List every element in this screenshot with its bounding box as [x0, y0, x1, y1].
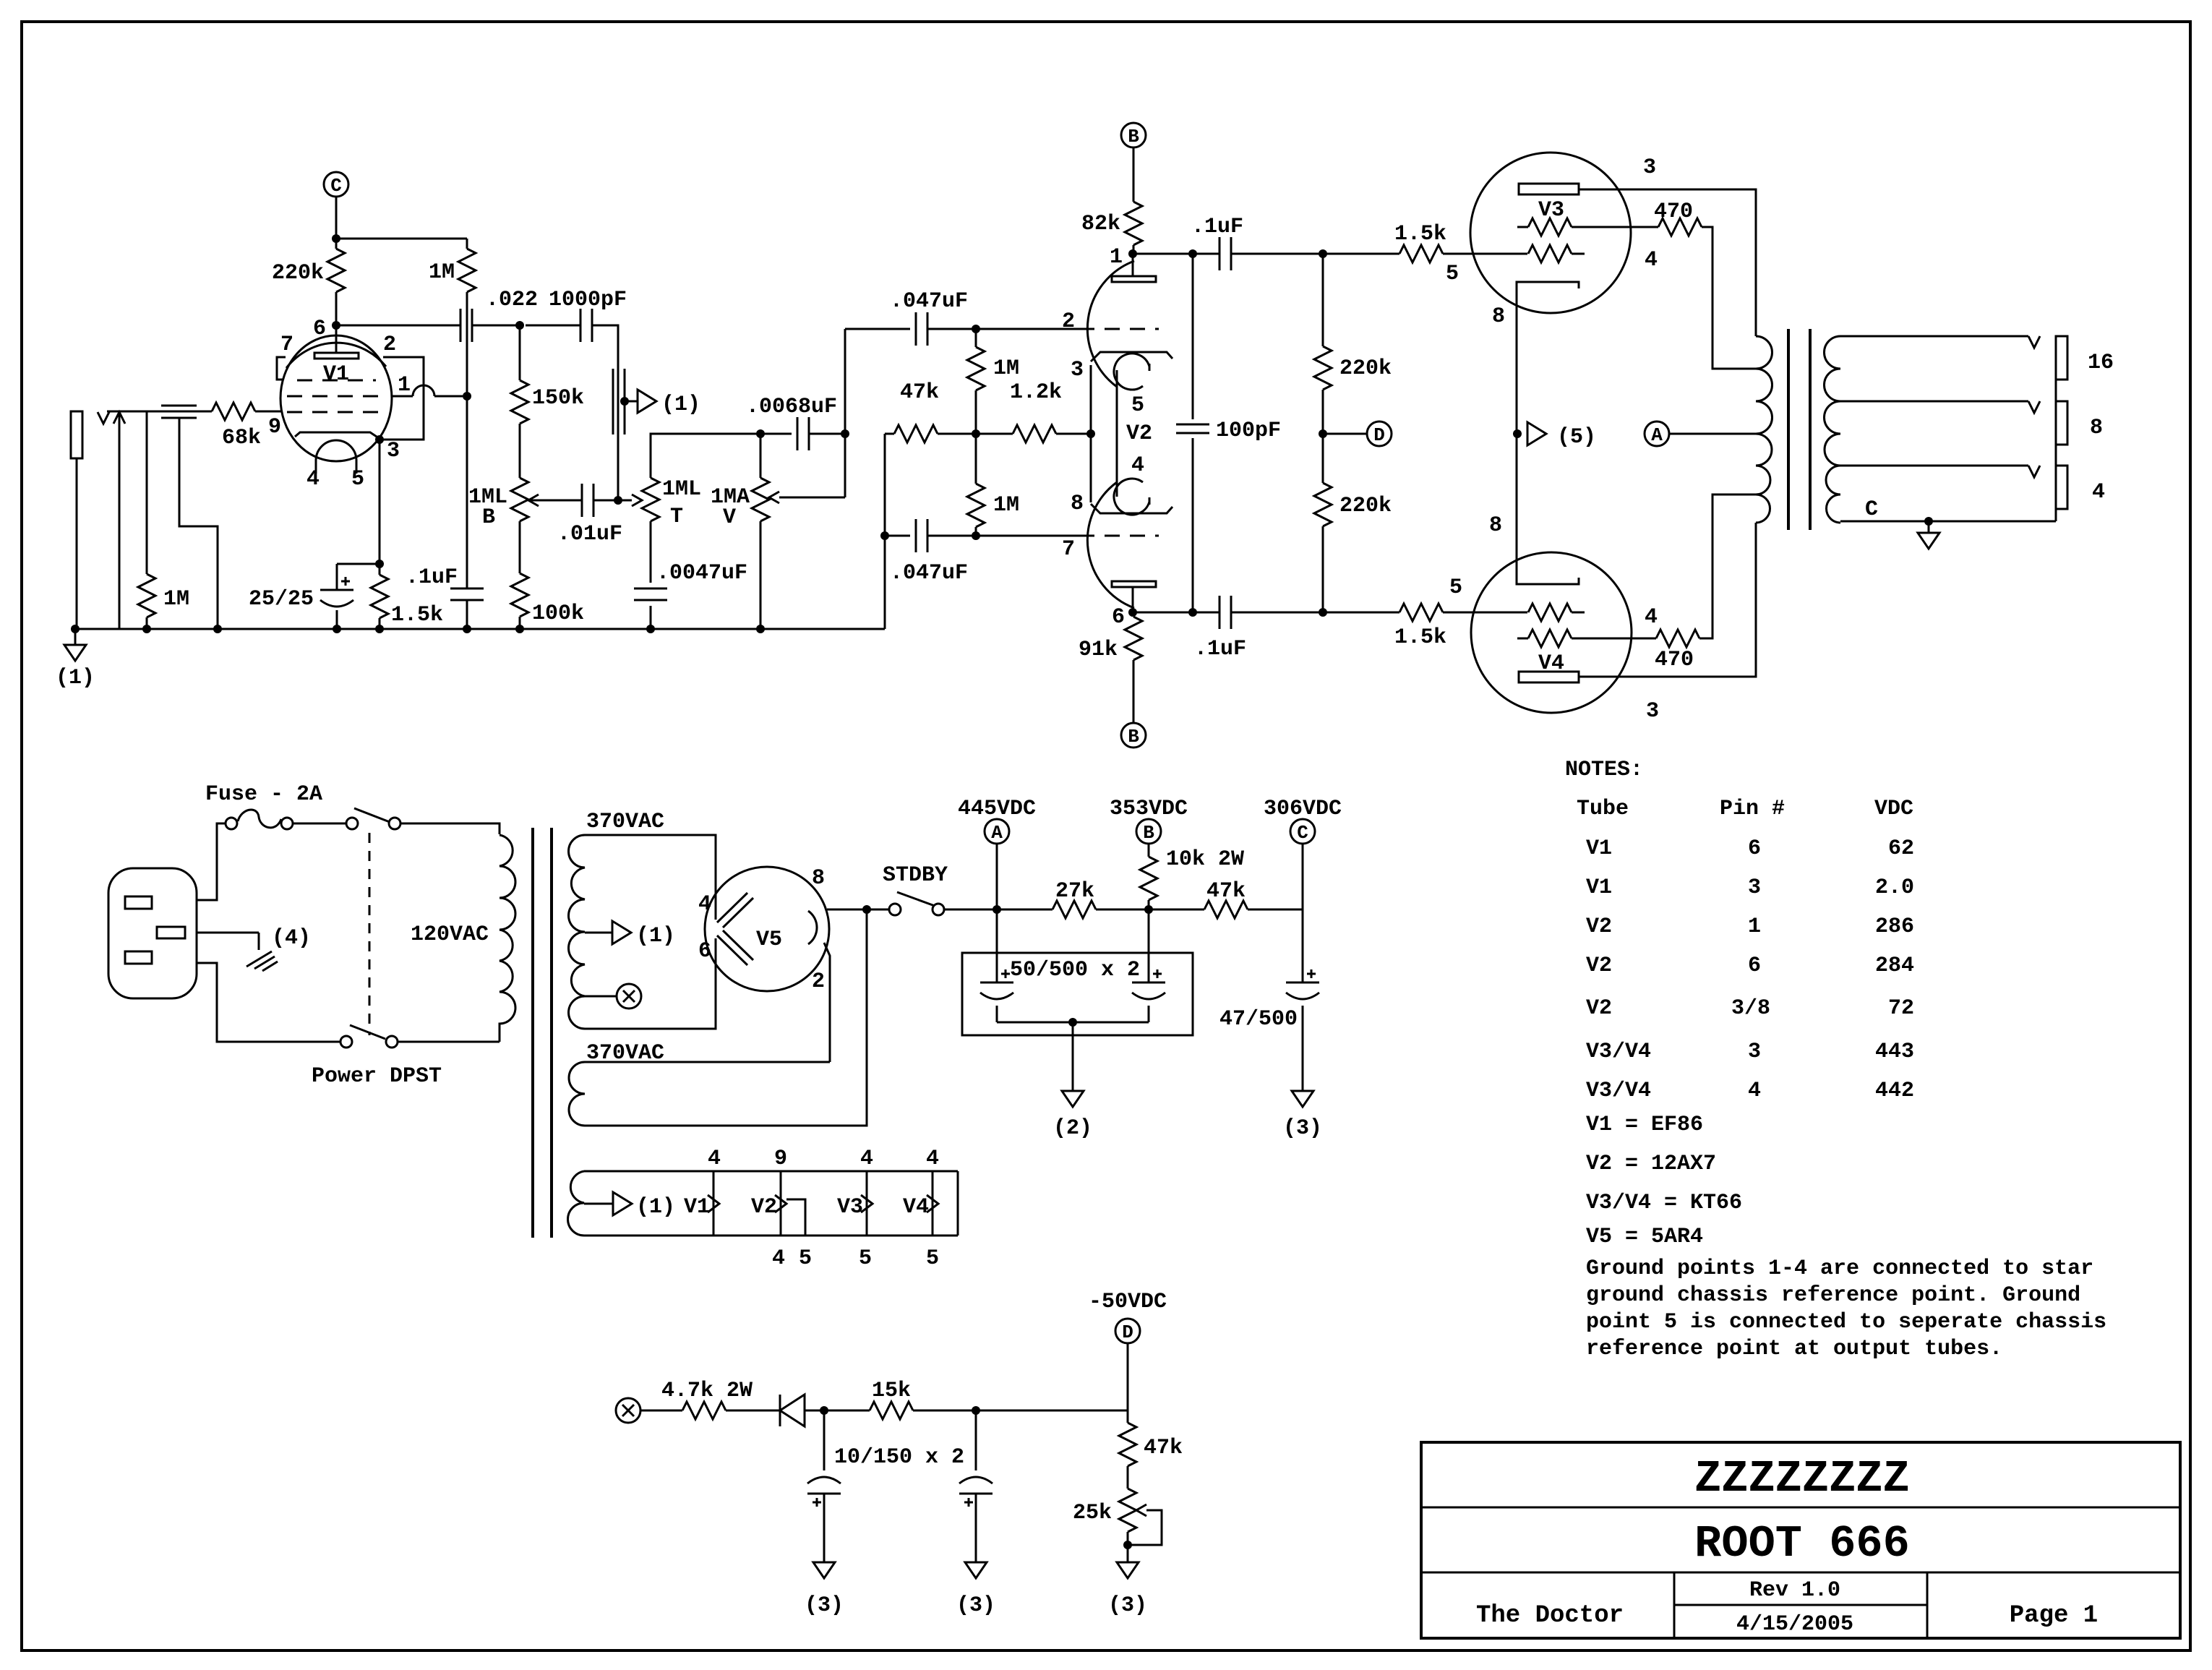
svg-text:V: V: [723, 505, 736, 530]
resistor 1M input: [146, 411, 148, 574]
V2 lower plate bar: [1112, 581, 1156, 587]
wire caps common: [997, 1022, 1149, 1024]
wire: [927, 328, 1079, 330]
wire plug neutral: [197, 963, 340, 1042]
jack shunt contact arrow: [119, 413, 121, 629]
V1 heater arc: [316, 440, 356, 461]
svg-text:220k: 220k: [272, 261, 324, 286]
svg-text:8: 8: [1071, 492, 1084, 516]
ground (3) supply: [1292, 1091, 1313, 1107]
svg-text:V1: V1: [323, 362, 349, 387]
node C: [324, 172, 348, 197]
resistor 15k: [870, 1402, 913, 1419]
V2 grid dashes upper: [1079, 328, 1159, 330]
svg-text:353VDC: 353VDC: [1110, 797, 1188, 821]
pot 25k wiper: [1136, 1504, 1146, 1516]
svg-text:5: 5: [926, 1246, 939, 1271]
svg-text:B: B: [1128, 126, 1139, 147]
svg-text:470: 470: [1654, 200, 1693, 224]
transformer T1 HV winding: [569, 835, 586, 1029]
svg-text:10k 2W: 10k 2W: [1166, 847, 1244, 872]
wire: [1231, 612, 1399, 614]
mains plug: [108, 868, 197, 998]
resistor 220k: [335, 239, 338, 249]
svg-text:D: D: [1373, 424, 1385, 446]
svg-text:V1: V1: [1586, 875, 1612, 900]
svg-text:4: 4: [1645, 605, 1658, 630]
heater bus top: [584, 1170, 958, 1173]
ground (5) output: [1924, 517, 1933, 526]
ground (3) bias a: [813, 1562, 835, 1578]
V4 plate bar: [1519, 672, 1579, 682]
svg-text:2: 2: [812, 969, 825, 994]
V1 grid dashes: [297, 380, 376, 382]
transformer T1 primary 120VAC: [500, 835, 515, 1042]
svg-text:2: 2: [1062, 309, 1075, 334]
svg-text:445VDC: 445VDC: [958, 797, 1036, 821]
V1 plate lead: [335, 325, 338, 353]
wire V5 pin8 out: [827, 909, 888, 911]
capacitor 10/150 a: [823, 1410, 826, 1470]
wire UL tap upper: [1702, 227, 1756, 369]
capacitor 50/500 a: [996, 909, 998, 982]
svg-text:470: 470: [1655, 648, 1694, 672]
capacitor .0068uF: [797, 417, 799, 450]
node cathode: [375, 560, 384, 568]
node X bias: [616, 1398, 640, 1423]
svg-text:2.0: 2.0: [1875, 875, 1914, 900]
svg-text:C: C: [1865, 497, 1878, 522]
heater bus bottom: [584, 1235, 958, 1237]
wire to primary: [401, 823, 500, 834]
V3 plate bar: [1519, 184, 1579, 194]
svg-text:.0068uF: .0068uF: [746, 395, 837, 419]
svg-text:-50VDC: -50VDC: [1089, 1290, 1167, 1314]
resistor 220k upper: [1319, 249, 1327, 258]
svg-text:Pin #: Pin #: [1720, 797, 1785, 821]
svg-text:150k: 150k: [532, 386, 584, 411]
tap 4 ohm: [1840, 465, 2028, 467]
svg-text:1: 1: [398, 373, 411, 398]
svg-text:8: 8: [2090, 416, 2103, 440]
resistor 1M grid: [458, 249, 476, 292]
svg-text:3: 3: [1643, 155, 1656, 180]
V3 plate wire: [1579, 189, 1756, 336]
svg-text:B: B: [482, 505, 495, 530]
svg-text:ground chassis reference point: ground chassis reference point. Ground: [1586, 1283, 2080, 1308]
svg-text:4.7k 2W: 4.7k 2W: [661, 1379, 753, 1403]
svg-text:4: 4: [2092, 480, 2105, 505]
wire HV top to V5 pin4: [585, 835, 716, 920]
svg-text:4: 4: [698, 892, 711, 917]
svg-text:1.5k: 1.5k: [391, 603, 443, 628]
jack bus bar: [2055, 336, 2057, 521]
wire UL tap lower: [1699, 494, 1756, 638]
filter cap box: [962, 953, 1193, 1035]
svg-text:.0047uF: .0047uF: [656, 561, 747, 586]
svg-text:62: 62: [1888, 836, 1914, 861]
node pot bottom: [1127, 1532, 1129, 1545]
resistor 10k 2W: [1140, 857, 1157, 900]
svg-text:.01uF: .01uF: [557, 522, 622, 547]
svg-text:(3): (3): [805, 1593, 844, 1618]
transformer T1 heater winding: [568, 1171, 585, 1236]
V3 control grid: [1528, 245, 1572, 262]
pot 25k bias: [1119, 1489, 1136, 1532]
V4 cathode: [1517, 434, 1579, 584]
V5 cathode arc: [808, 911, 817, 944]
plug prong hot: [125, 896, 152, 909]
svg-text:B: B: [1143, 822, 1154, 844]
shield capacitor: [161, 405, 197, 407]
wire upper coupling: [845, 328, 910, 330]
svg-text:(1): (1): [661, 393, 700, 417]
node cathode join: [1513, 429, 1522, 438]
svg-text:4: 4: [926, 1147, 939, 1171]
wire B+ node: [944, 909, 997, 911]
svg-text:72: 72: [1888, 996, 1914, 1021]
wire from primary: [398, 1041, 500, 1043]
V3 cathode: [1517, 282, 1579, 434]
resistor 1.5k upper: [1399, 245, 1443, 262]
svg-text:3: 3: [1748, 1040, 1761, 1064]
jack tip contact: [98, 412, 109, 424]
svg-text:1ML: 1ML: [662, 477, 701, 502]
svg-text:V3/V4: V3/V4: [1586, 1040, 1651, 1064]
svg-text:306VDC: 306VDC: [1264, 797, 1342, 821]
capacitor .0047uF: [650, 521, 652, 583]
svg-text:6: 6: [1112, 605, 1125, 630]
resistor 470 upper: [1658, 218, 1702, 236]
node D bias: [1115, 1319, 1140, 1343]
wire: [293, 823, 346, 825]
ground (2): [1062, 1091, 1084, 1107]
svg-text:3/8: 3/8: [1731, 996, 1770, 1021]
capacitor 10/150 b: [975, 1410, 977, 1470]
svg-text:1M: 1M: [993, 493, 1019, 518]
svg-text:6: 6: [1748, 836, 1761, 861]
svg-text:50/500 x 2: 50/500 x 2: [1010, 958, 1140, 982]
svg-text:T: T: [670, 505, 683, 529]
secondary common wire: [1840, 521, 2056, 523]
node pin 3: [375, 435, 384, 444]
svg-text:25/25: 25/25: [249, 587, 314, 612]
V4 screen grid: [1517, 638, 1528, 640]
svg-text:47k: 47k: [900, 380, 939, 405]
pot 1ML T treble: [642, 478, 659, 521]
resistor 100k: [519, 521, 521, 573]
resistor 150k: [519, 325, 521, 380]
ground (3) bias b: [965, 1562, 987, 1578]
heater ground (1): [584, 1203, 613, 1205]
svg-text:Ground points 1-4 are connecte: Ground points 1-4 are connected to star: [1586, 1256, 2093, 1281]
resistor 47k supply: [1149, 909, 1204, 911]
node C supply: [1290, 819, 1315, 844]
V4 control grid: [1528, 604, 1572, 621]
node pin 6: [332, 321, 340, 330]
capacitor 1000pF: [580, 309, 582, 342]
V1 top shield arc: [286, 343, 386, 368]
svg-text:6: 6: [313, 317, 326, 341]
svg-text:A: A: [1651, 424, 1663, 446]
wire input to 68k: [107, 411, 212, 413]
svg-text:5: 5: [1446, 262, 1459, 286]
svg-text:8: 8: [1489, 513, 1502, 538]
node D junction: [1319, 429, 1327, 438]
capacitor 50/500 b: [1148, 909, 1150, 982]
svg-text:2: 2: [383, 333, 396, 357]
tube V4 envelope: [1471, 552, 1632, 713]
capacitor .047uF upper: [915, 312, 917, 346]
resistor 1.5k cathode: [379, 564, 381, 575]
node .01uF out: [593, 500, 632, 502]
svg-text:4: 4: [306, 467, 320, 492]
heater bus end: [957, 1171, 959, 1236]
resistor 27k: [997, 909, 1053, 911]
svg-text:284: 284: [1875, 954, 1914, 978]
svg-text:(1): (1): [636, 924, 675, 949]
resistor 470 lower: [1656, 630, 1699, 647]
svg-text:68k: 68k: [222, 426, 261, 450]
tube V3 envelope: [1470, 153, 1631, 313]
ground (1) input: [71, 625, 80, 633]
svg-text:(1): (1): [636, 1195, 675, 1220]
node volume top: [756, 429, 765, 438]
node top rail: [332, 234, 340, 243]
wire lower plate row: [1133, 612, 1219, 614]
capacitor 100pF: [1192, 254, 1194, 419]
svg-text:V5: V5: [756, 928, 782, 952]
svg-text:4: 4: [772, 1246, 785, 1271]
wire 5V top: [585, 1061, 830, 1063]
V2 lower cathode: [1091, 504, 1173, 513]
capacitor 47/500: [1286, 982, 1319, 984]
svg-text:D: D: [1122, 1322, 1133, 1343]
svg-text:9: 9: [774, 1147, 787, 1171]
svg-text:V3: V3: [837, 1195, 863, 1220]
svg-text:The Doctor: The Doctor: [1476, 1602, 1624, 1630]
wire HV bottom to V5 pin6: [585, 938, 716, 1029]
svg-text:7: 7: [280, 333, 293, 357]
pot V wiper: [769, 492, 779, 503]
wire: [1231, 253, 1399, 255]
wire plug safety gnd: [197, 932, 259, 934]
svg-text:Fuse - 2A: Fuse - 2A: [205, 782, 322, 807]
capacitor .022: [460, 309, 462, 342]
node B upper: [1121, 123, 1146, 147]
wire: [927, 535, 1079, 537]
svg-text:16: 16: [2088, 351, 2114, 375]
svg-text:V1: V1: [684, 1195, 710, 1220]
svg-text:1M: 1M: [993, 356, 1019, 381]
svg-text:25k: 25k: [1073, 1501, 1112, 1525]
svg-text:C: C: [330, 175, 342, 197]
node bias b: [972, 1406, 980, 1415]
svg-text:6: 6: [1748, 954, 1761, 978]
svg-text:220k: 220k: [1339, 356, 1392, 381]
resistor 91k: [1132, 612, 1134, 617]
svg-text:10/150 x 2: 10/150 x 2: [834, 1445, 964, 1470]
ground (3) bias c: [1117, 1562, 1139, 1578]
svg-text:.047uF: .047uF: [890, 289, 968, 314]
V2 pin3 pin8 wire: [1090, 365, 1092, 502]
svg-text:A: A: [991, 822, 1003, 844]
svg-text:V2: V2: [1586, 996, 1612, 1021]
svg-text:ROOT 666: ROOT 666: [1694, 1518, 1910, 1570]
wire shield drain: [179, 418, 218, 629]
svg-text:V2: V2: [1586, 954, 1612, 978]
svg-text:1.5k: 1.5k: [1394, 222, 1446, 247]
tap 8 ohm: [1840, 401, 2028, 403]
svg-text:ZZZZZZZZ: ZZZZZZZZ: [1694, 1453, 1910, 1504]
resistor 47k bias: [1127, 1410, 1129, 1423]
svg-text:(3): (3): [1283, 1116, 1322, 1141]
wire upper plate row: [1133, 253, 1219, 255]
svg-text:V3/V4: V3/V4: [1586, 1079, 1651, 1103]
V2 heater arc upper: [1114, 354, 1149, 390]
node A supply: [985, 819, 1009, 844]
svg-text:100pF: 100pF: [1216, 419, 1281, 443]
diode D1: [779, 1395, 781, 1426]
svg-text:STDBY: STDBY: [883, 863, 948, 888]
svg-text:4/15/2005: 4/15/2005: [1736, 1612, 1853, 1637]
svg-text:V2: V2: [1586, 915, 1612, 939]
svg-text:47/500: 47/500: [1219, 1007, 1298, 1032]
svg-text:7: 7: [1062, 537, 1075, 562]
node V2 pin6: [1128, 608, 1137, 617]
V1 pin4 pin5 stubs: [315, 461, 317, 474]
V1 cathode: [295, 432, 381, 440]
HV bias tap X: [585, 995, 617, 998]
svg-text:(5): (5): [1557, 425, 1596, 450]
svg-text:6: 6: [698, 939, 711, 964]
V2 heater arc lower: [1114, 479, 1149, 515]
switch dashed link: [369, 833, 371, 1035]
resistor 4.7k 2W: [682, 1402, 726, 1419]
svg-text:5: 5: [799, 1246, 812, 1271]
svg-text:Tube: Tube: [1577, 797, 1629, 821]
transformer T1 5V winding: [569, 1062, 585, 1126]
V4 plate wire: [1579, 523, 1756, 677]
node B junction: [1144, 905, 1153, 914]
svg-text:442: 442: [1875, 1079, 1914, 1103]
svg-text:NOTES:: NOTES:: [1565, 758, 1643, 782]
svg-text:V4: V4: [903, 1195, 929, 1220]
svg-text:V5 = 5AR4: V5 = 5AR4: [1586, 1225, 1703, 1249]
input jack J1: [71, 411, 82, 458]
svg-text:47k: 47k: [1206, 879, 1246, 904]
tube V2 lower arc: [1087, 482, 1134, 608]
svg-text:1M: 1M: [163, 587, 189, 612]
node V2 pin1: [1128, 249, 1137, 258]
transformer T2 core: [1787, 329, 1790, 530]
switch standby: [889, 904, 901, 915]
svg-text:(3): (3): [956, 1593, 995, 1618]
svg-text:5: 5: [1449, 575, 1462, 600]
shunt capacitor to ground: [612, 369, 614, 434]
ground bus wire: [75, 628, 885, 630]
svg-text:V3/V4 = KT66: V3/V4 = KT66: [1586, 1191, 1742, 1215]
net arrow (5): [1527, 422, 1546, 445]
node divider: [972, 429, 980, 438]
svg-text:point 5 is connected to sepera: point 5 is connected to seperate chassis: [1586, 1310, 2106, 1335]
svg-text:(3): (3): [1108, 1593, 1147, 1618]
HV center tap ground (1): [585, 932, 612, 934]
svg-text:Page 1: Page 1: [2010, 1602, 2098, 1630]
pot 1ML B bass: [511, 478, 528, 521]
svg-text:5: 5: [351, 467, 364, 492]
svg-text:3: 3: [1748, 875, 1761, 900]
pot B wiper: [528, 494, 539, 506]
svg-text:C: C: [1297, 822, 1308, 844]
V3 screen grid: [1517, 226, 1528, 228]
title block frame: [1421, 1442, 2180, 1638]
svg-text:1000pF: 1000pF: [549, 288, 627, 312]
V5 plate pin4: [717, 893, 747, 922]
svg-text:91k: 91k: [1079, 638, 1118, 662]
svg-text:8: 8: [1492, 304, 1505, 329]
svg-text:5: 5: [1131, 393, 1144, 418]
tube V5 envelope: [705, 867, 829, 991]
svg-text:V1: V1: [1586, 836, 1612, 861]
capacitor .01uF: [581, 484, 583, 517]
V2 heater line: [1116, 370, 1118, 497]
transformer T1 core: [531, 828, 534, 1238]
net arrow (1): [638, 390, 656, 413]
svg-text:1M: 1M: [429, 260, 455, 285]
wire plate row: [336, 325, 460, 327]
resistor 1.2k: [976, 433, 1013, 435]
svg-text:1.5k: 1.5k: [1394, 625, 1446, 650]
resistor 82k: [1125, 202, 1142, 245]
transformer T2 primary winding: [1756, 336, 1772, 523]
svg-text:reference point at output tube: reference point at output tubes.: [1586, 1337, 2002, 1361]
wire to tone stack: [592, 325, 618, 500]
resistor 1.5k lower: [1399, 604, 1443, 621]
svg-text:B: B: [1128, 726, 1139, 748]
resistor 1M upper: [975, 329, 977, 347]
svg-text:286: 286: [1875, 915, 1914, 939]
svg-text:V2: V2: [1126, 421, 1152, 446]
node bias a: [820, 1406, 828, 1415]
svg-text:.1uF: .1uF: [1191, 215, 1243, 239]
switch power pole 1: [346, 818, 358, 829]
title block column lines: [1673, 1572, 1676, 1638]
node B supply: [1136, 819, 1161, 844]
svg-text:(1): (1): [56, 666, 95, 690]
V1 pin8 stub: [277, 357, 286, 380]
svg-text:3: 3: [1071, 358, 1084, 382]
svg-text:VDC: VDC: [1874, 797, 1913, 821]
capacitor 25/25: [336, 564, 338, 590]
fuse F1: [226, 818, 237, 829]
pot T wiper: [632, 494, 642, 506]
capacitor .1uF lower: [1219, 596, 1221, 629]
switch power pole 2: [340, 1036, 352, 1048]
V2 upper cathode: [1091, 352, 1173, 361]
svg-text:5: 5: [859, 1246, 872, 1271]
tube V2 upper arc: [1087, 261, 1134, 387]
wire lower coupling: [880, 531, 889, 540]
V5 plate pin6: [717, 935, 747, 965]
jack 8: [2056, 401, 2067, 445]
tap 16 ohm: [1840, 335, 2028, 338]
resistor 1M lower: [967, 484, 985, 527]
svg-text:370VAC: 370VAC: [586, 810, 664, 834]
svg-text:4: 4: [1748, 1079, 1761, 1103]
svg-text:Power DPST: Power DPST: [312, 1064, 442, 1089]
svg-text:V1 = EF86: V1 = EF86: [1586, 1113, 1703, 1137]
